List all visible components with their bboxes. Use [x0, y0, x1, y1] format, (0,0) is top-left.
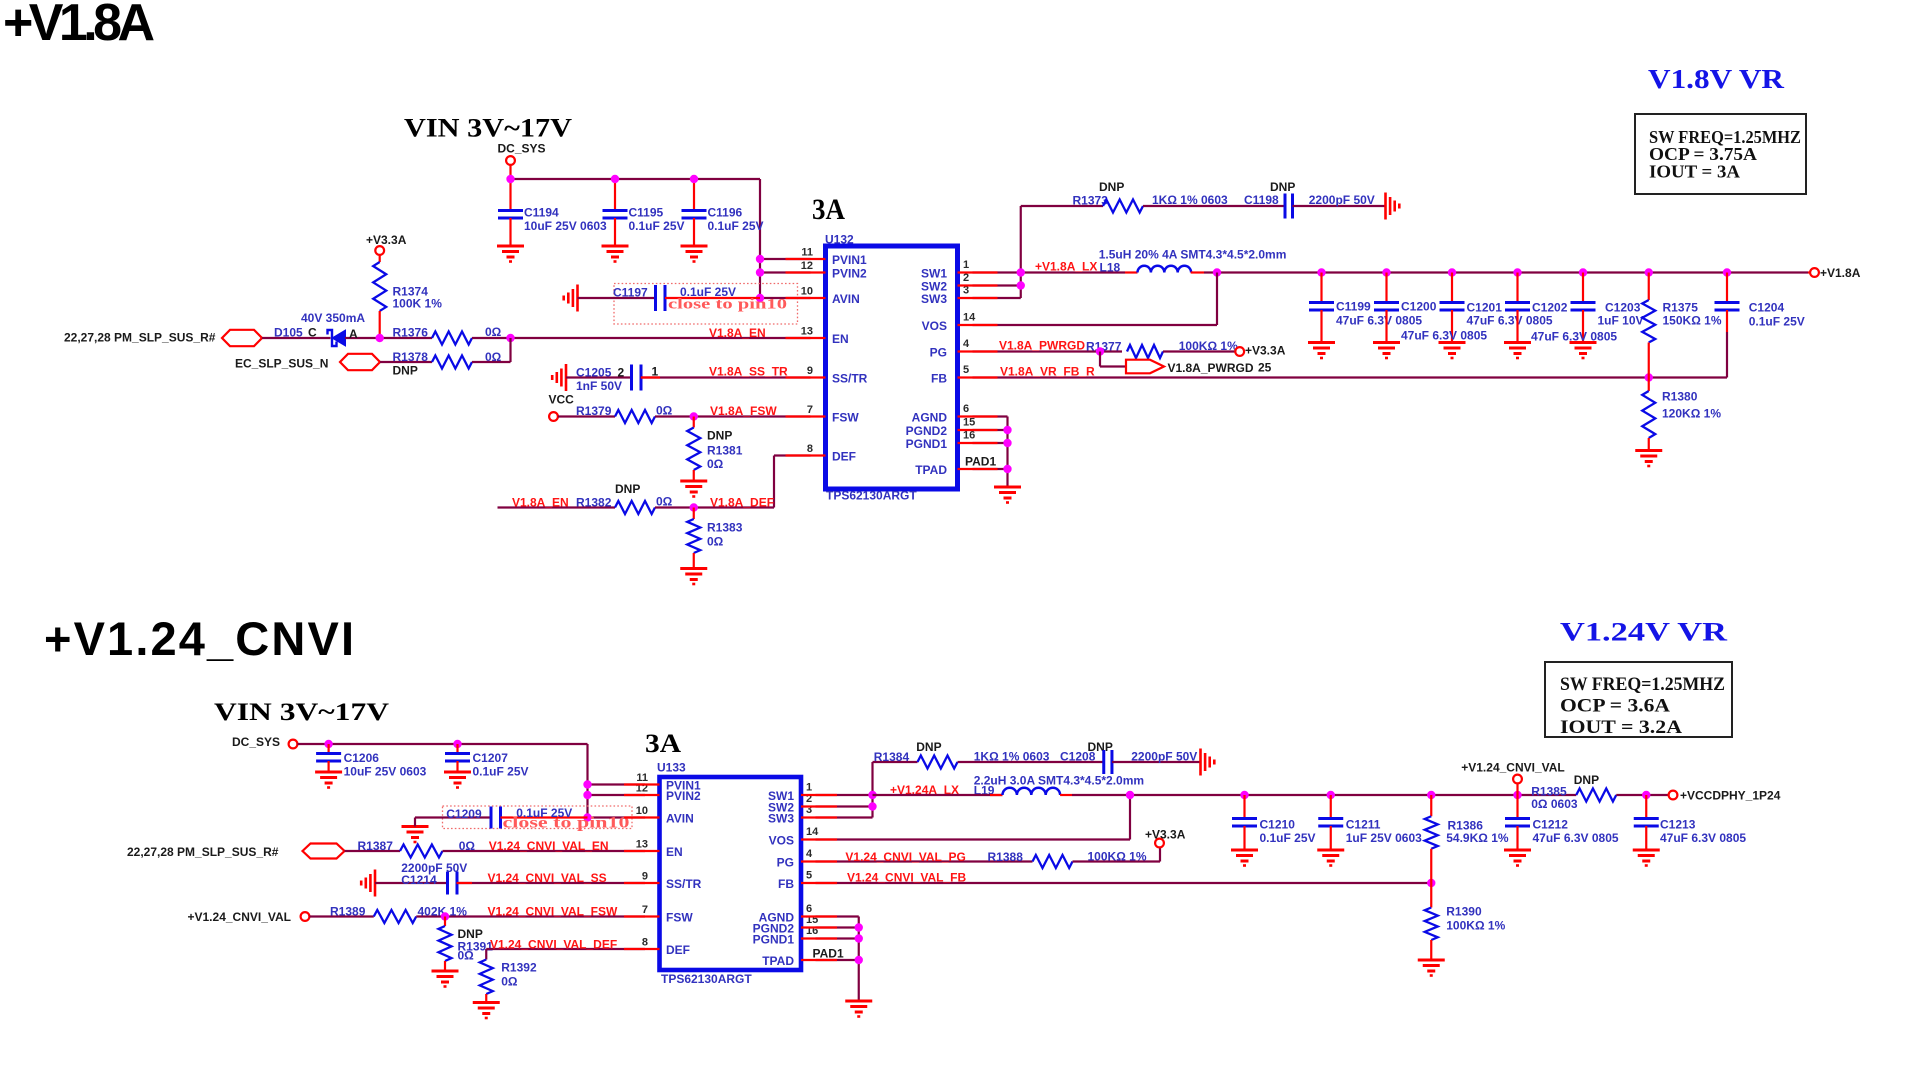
svg-text:DC_SYS: DC_SYS	[498, 142, 546, 156]
svg-text:47uF 6.3V 0805: 47uF 6.3V 0805	[1401, 329, 1487, 343]
svg-text:DNP: DNP	[916, 740, 941, 754]
svg-text:1nF 50V: 1nF 50V	[576, 379, 622, 393]
svg-text:5: 5	[963, 364, 969, 376]
svg-text:L18: L18	[1100, 261, 1121, 275]
svg-text:TPAD: TPAD	[915, 463, 947, 477]
svg-text:C1209: C1209	[446, 807, 482, 821]
svg-text:A: A	[349, 327, 358, 341]
svg-text:AVIN: AVIN	[666, 812, 694, 826]
svg-text:R1390: R1390	[1446, 905, 1482, 919]
svg-text:V1.24_CNVI_VAL_SS: V1.24_CNVI_VAL_SS	[488, 871, 607, 885]
svg-text:13: 13	[636, 839, 648, 851]
svg-text:1: 1	[806, 782, 812, 794]
svg-text:VIN 3V~17V: VIN 3V~17V	[404, 114, 572, 143]
svg-text:+V1.8A_LX: +V1.8A_LX	[1035, 260, 1097, 274]
svg-text:DNP: DNP	[393, 364, 418, 378]
svg-text:8: 8	[642, 937, 648, 949]
svg-text:C: C	[308, 326, 317, 340]
svg-text:22,27,28 PM_SLP_SUS_R#: 22,27,28 PM_SLP_SUS_R#	[127, 845, 279, 859]
svg-text:PAD1: PAD1	[965, 455, 996, 469]
svg-text:7: 7	[642, 904, 648, 916]
svg-text:V1.8A_EN: V1.8A_EN	[709, 326, 766, 340]
svg-text:120KΩ 1%: 120KΩ 1%	[1662, 407, 1721, 421]
svg-text:150KΩ 1%: 150KΩ 1%	[1663, 314, 1722, 328]
svg-text:1KΩ 1% 0603: 1KΩ 1% 0603	[974, 750, 1050, 764]
svg-text:EN: EN	[666, 845, 683, 859]
svg-text:2.2uH 3.0A SMT4.3*4.5*2.0mm: 2.2uH 3.0A SMT4.3*4.5*2.0mm	[974, 774, 1144, 788]
svg-text:U132: U132	[825, 233, 854, 247]
svg-text:7: 7	[807, 404, 813, 416]
svg-text:AGND: AGND	[912, 411, 948, 425]
svg-text:14: 14	[963, 312, 976, 324]
svg-text:R1379: R1379	[576, 404, 612, 418]
svg-text:R1376: R1376	[393, 326, 429, 340]
svg-text:EC_SLP_SUS_N: EC_SLP_SUS_N	[235, 357, 328, 371]
svg-text:10: 10	[801, 286, 813, 298]
svg-text:4: 4	[963, 338, 970, 350]
svg-text:47uF 6.3V 0805: 47uF 6.3V 0805	[1660, 831, 1746, 845]
svg-text:V1.8A_FSW: V1.8A_FSW	[710, 404, 777, 418]
svg-text:100KΩ 1%: 100KΩ 1%	[1088, 850, 1147, 864]
svg-text:SW3: SW3	[921, 292, 947, 306]
svg-text:2200pF 50V: 2200pF 50V	[1131, 750, 1197, 764]
svg-text:U133: U133	[657, 761, 686, 775]
svg-text:close to pin10: close to pin10	[503, 815, 630, 832]
svg-text:R1375: R1375	[1663, 301, 1699, 315]
svg-text:C1204: C1204	[1749, 301, 1785, 315]
svg-text:R1378: R1378	[393, 350, 429, 364]
svg-text:13: 13	[801, 326, 813, 338]
svg-text:54.9KΩ 1%: 54.9KΩ 1%	[1446, 831, 1509, 845]
svg-text:PG: PG	[777, 856, 794, 870]
svg-text:+V1.8A: +V1.8A	[3, 0, 155, 52]
svg-text:C1196: C1196	[708, 206, 743, 220]
svg-text:V1.8A_VR_FB_R: V1.8A_VR_FB_R	[1000, 365, 1095, 379]
svg-text:3A: 3A	[645, 729, 681, 758]
svg-text:6: 6	[963, 403, 969, 415]
svg-text:DNP: DNP	[1088, 740, 1113, 754]
svg-text:R1387: R1387	[358, 839, 394, 853]
svg-text:R1382: R1382	[576, 496, 612, 510]
svg-text:C1203: C1203	[1605, 301, 1641, 315]
svg-text:+V3.3A: +V3.3A	[1145, 828, 1186, 842]
svg-text:100KΩ 1%: 100KΩ 1%	[1446, 919, 1505, 933]
svg-text:PGND1: PGND1	[906, 437, 948, 451]
svg-text:2200pF 50V: 2200pF 50V	[1309, 193, 1375, 207]
svg-text:AVIN: AVIN	[832, 292, 860, 306]
svg-text:D105: D105	[274, 326, 303, 340]
svg-text:C1214: C1214	[401, 873, 437, 887]
svg-text:0Ω 0603: 0Ω 0603	[1531, 797, 1578, 811]
svg-text:25: 25	[1258, 361, 1272, 375]
svg-text:100K 1%: 100K 1%	[393, 297, 443, 311]
svg-text:R1388: R1388	[988, 850, 1024, 864]
svg-text:DNP: DNP	[1270, 180, 1295, 194]
svg-text:DEF: DEF	[832, 450, 856, 464]
svg-text:47uF 6.3V 0805: 47uF 6.3V 0805	[1533, 831, 1619, 845]
svg-text:+V1.24_CNVI_VAL: +V1.24_CNVI_VAL	[188, 910, 292, 924]
svg-text:+V3.3A: +V3.3A	[1245, 344, 1286, 358]
svg-text:8: 8	[807, 443, 813, 455]
svg-text:4: 4	[806, 848, 813, 860]
svg-text:C1197: C1197	[613, 286, 648, 300]
svg-text:DC_SYS: DC_SYS	[232, 735, 280, 749]
svg-text:C1210: C1210	[1260, 818, 1296, 832]
svg-text:VOS: VOS	[922, 319, 947, 333]
svg-text:SW1: SW1	[921, 267, 947, 281]
svg-text:C1206: C1206	[344, 751, 380, 765]
svg-text:0Ω: 0Ω	[501, 975, 518, 989]
svg-text:SW3: SW3	[768, 812, 794, 826]
svg-text:1: 1	[963, 259, 969, 271]
svg-text:TPS62130ARGT: TPS62130ARGT	[826, 489, 917, 503]
svg-text:EN: EN	[832, 332, 849, 346]
svg-text:PG: PG	[930, 346, 947, 360]
svg-text:0Ω: 0Ω	[707, 535, 724, 549]
svg-text:5: 5	[806, 870, 812, 882]
svg-text:PVIN2: PVIN2	[832, 267, 867, 281]
svg-text:15: 15	[963, 417, 975, 429]
svg-text:V1.24_CNVI_VAL_FSW: V1.24_CNVI_VAL_FSW	[488, 905, 618, 919]
svg-text:2: 2	[618, 366, 625, 380]
svg-text:C1201: C1201	[1467, 301, 1503, 315]
svg-text:FB: FB	[931, 372, 947, 386]
svg-text:C1199: C1199	[1336, 300, 1371, 314]
svg-text:TPS62130ARGT: TPS62130ARGT	[661, 972, 752, 986]
svg-text:0.1uF 25V: 0.1uF 25V	[629, 219, 685, 233]
svg-text:47uF 6.3V 0805: 47uF 6.3V 0805	[1531, 330, 1617, 344]
svg-text:V1.24V VR: V1.24V VR	[1560, 618, 1727, 647]
svg-text:close to pin10: close to pin10	[668, 297, 787, 313]
svg-text:FB: FB	[778, 877, 794, 891]
svg-text:V1.24_CNVI_VAL_EN: V1.24_CNVI_VAL_EN	[489, 839, 609, 853]
svg-text:IOUT = 3.2A: IOUT = 3.2A	[1560, 717, 1682, 738]
svg-text:DNP: DNP	[615, 482, 640, 496]
svg-text:C1213: C1213	[1660, 818, 1696, 832]
svg-text:12: 12	[801, 260, 813, 272]
svg-text:C1195: C1195	[629, 206, 664, 220]
svg-text:C1207: C1207	[473, 751, 509, 765]
svg-text:SW FREQ=1.25MHZ: SW FREQ=1.25MHZ	[1560, 674, 1725, 695]
svg-text:PVIN1: PVIN1	[832, 253, 867, 267]
svg-text:V1.8A_EN: V1.8A_EN	[512, 496, 569, 510]
svg-text:9: 9	[642, 871, 648, 883]
svg-text:11: 11	[801, 247, 813, 259]
svg-text:C1211: C1211	[1346, 818, 1381, 832]
svg-text:V1.8A_PWRGD: V1.8A_PWRGD	[1168, 361, 1254, 375]
svg-text:FSW: FSW	[666, 911, 693, 925]
svg-text:+V1.24_CNVI: +V1.24_CNVI	[44, 612, 354, 665]
svg-text:0Ω: 0Ω	[459, 839, 476, 853]
svg-text:0.1uF 25V: 0.1uF 25V	[473, 765, 529, 779]
svg-text:+V3.3A: +V3.3A	[366, 233, 407, 247]
svg-text:TPAD: TPAD	[762, 954, 794, 968]
svg-text:+VCCDPHY_1P24: +VCCDPHY_1P24	[1680, 789, 1781, 803]
svg-text:1: 1	[652, 365, 659, 379]
svg-text:DNP: DNP	[707, 429, 732, 443]
svg-text:10: 10	[636, 805, 648, 817]
svg-text:R1381: R1381	[707, 444, 743, 458]
svg-text:VOS: VOS	[769, 834, 794, 848]
svg-text:+V1.8A: +V1.8A	[1820, 266, 1861, 280]
svg-text:V1.24_CNVI_VAL_PG: V1.24_CNVI_VAL_PG	[845, 850, 966, 864]
svg-text:R1380: R1380	[1662, 390, 1698, 404]
svg-text:1uF 25V 0603: 1uF 25V 0603	[1346, 831, 1422, 845]
svg-text:14: 14	[806, 826, 819, 838]
svg-text:V1.8A_DEF: V1.8A_DEF	[710, 496, 774, 510]
svg-text:VIN 3V~17V: VIN 3V~17V	[214, 699, 389, 726]
svg-text:FSW: FSW	[832, 411, 859, 425]
svg-text:PAD1: PAD1	[813, 947, 844, 961]
svg-text:C1198: C1198	[1244, 193, 1279, 207]
svg-text:10uF 25V 0603: 10uF 25V 0603	[344, 765, 427, 779]
svg-text:1.5uH 20% 4A SMT4.3*4.5*2.0mm: 1.5uH 20% 4A SMT4.3*4.5*2.0mm	[1099, 248, 1287, 262]
svg-text:DEF: DEF	[666, 943, 690, 957]
svg-text:0Ω: 0Ω	[458, 949, 475, 963]
svg-text:V1.8V VR: V1.8V VR	[1648, 64, 1785, 94]
svg-text:PVIN2: PVIN2	[666, 789, 701, 803]
svg-text:C1205: C1205	[576, 366, 612, 380]
svg-text:R1392: R1392	[501, 961, 537, 975]
svg-text:47uF 6.3V 0805: 47uF 6.3V 0805	[1467, 314, 1553, 328]
svg-text:16: 16	[963, 430, 975, 442]
svg-text:C1194: C1194	[524, 206, 559, 220]
svg-text:C1200: C1200	[1401, 300, 1437, 314]
svg-text:100KΩ 1%: 100KΩ 1%	[1179, 339, 1238, 353]
svg-text:OCP = 3.6A: OCP = 3.6A	[1560, 696, 1670, 717]
svg-text:0Ω: 0Ω	[707, 457, 724, 471]
svg-text:SS/TR: SS/TR	[832, 372, 868, 386]
svg-text:V1.8A_PWRGD: V1.8A_PWRGD	[999, 339, 1085, 353]
svg-text:R1384: R1384	[874, 750, 910, 764]
svg-text:DNP: DNP	[1574, 773, 1599, 787]
svg-text:DNP: DNP	[1099, 180, 1124, 194]
svg-text:9: 9	[807, 365, 813, 377]
svg-text:SS/TR: SS/TR	[666, 877, 702, 891]
svg-text:2: 2	[963, 272, 969, 284]
svg-text:R1389: R1389	[330, 905, 366, 919]
svg-text:C1212: C1212	[1533, 818, 1569, 832]
svg-text:40V 350mA: 40V 350mA	[301, 311, 365, 325]
svg-text:1uF 10V: 1uF 10V	[1598, 314, 1644, 328]
svg-text:V1.8A_SS_TR: V1.8A_SS_TR	[709, 365, 788, 379]
svg-text:3A: 3A	[812, 193, 845, 226]
svg-text:V1.24_CNVI_VAL_DEF: V1.24_CNVI_VAL_DEF	[490, 938, 617, 952]
svg-text:0.1uF 25V: 0.1uF 25V	[1260, 831, 1316, 845]
svg-text:0.1uF 25V: 0.1uF 25V	[1749, 315, 1805, 329]
svg-text:IOUT = 3A: IOUT = 3A	[1649, 162, 1740, 182]
svg-text:V1.24_CNVI_VAL_FB: V1.24_CNVI_VAL_FB	[847, 871, 966, 885]
svg-text:VCC: VCC	[549, 393, 575, 407]
svg-text:+V1.24_CNVI_VAL: +V1.24_CNVI_VAL	[1461, 761, 1565, 775]
svg-text:10uF 25V 0603: 10uF 25V 0603	[524, 219, 607, 233]
svg-text:1KΩ 1% 0603: 1KΩ 1% 0603	[1152, 193, 1228, 207]
svg-text:C1202: C1202	[1532, 301, 1568, 315]
svg-text:22,27,28 PM_SLP_SUS_R#: 22,27,28 PM_SLP_SUS_R#	[64, 331, 216, 345]
svg-text:47uF 6.3V 0805: 47uF 6.3V 0805	[1336, 314, 1422, 328]
svg-text:R1383: R1383	[707, 521, 743, 535]
svg-text:PGND1: PGND1	[753, 933, 795, 947]
svg-text:0.1uF 25V: 0.1uF 25V	[708, 219, 764, 233]
svg-text:PGND2: PGND2	[906, 424, 948, 438]
